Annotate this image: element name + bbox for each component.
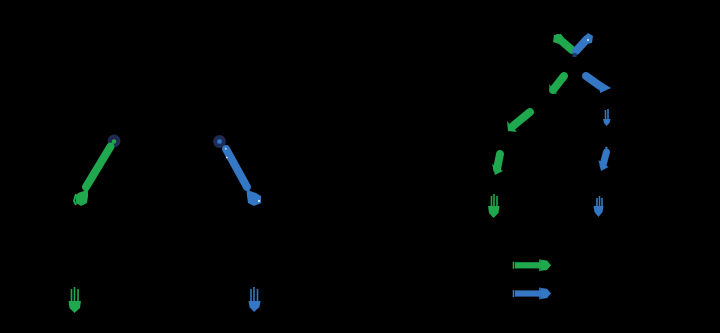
blue slope arrow 4 (down, leaning left) [599,147,609,171]
green slope arrow 4 (near-vertical) [492,154,503,175]
green slope arrow 3 [507,112,530,132]
pivot circle left (navy ring, green dot) [108,135,121,148]
pivot circle right (navy ring, blue dot) [213,135,226,148]
blue slope arrow 2 (points down-right) [586,76,611,93]
blue apex arrow (points up-right) [573,33,594,57]
small blue down arrow 5 [594,196,604,217]
small green down arrow (trajectory base) [488,194,500,218]
small green down arrow (left) [69,287,82,313]
legend green arrow (horizontal right) [514,259,552,271]
green slope arrow 2 [549,76,564,94]
legend blue arrow (horizontal right) [514,288,552,300]
green apex arrow (points up-left) [553,34,572,50]
blue pendulum velocity arrow [225,148,261,206]
green pendulum velocity arrow [74,147,111,207]
small blue down arrow (left group) [249,287,261,312]
small blue down arrow 3 [603,109,611,126]
